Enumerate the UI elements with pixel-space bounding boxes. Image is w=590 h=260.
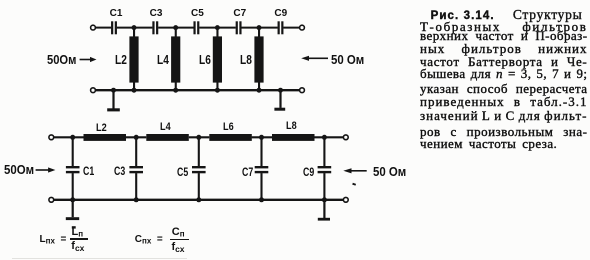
- label L6 (top filter): [199, 52, 211, 67]
- arrow: 50 Ohm load, bottom-right: [343, 168, 366, 173]
- terminal: bottom circuit output upper: [343, 135, 348, 140]
- inductor L4 (series, bottom filter): [146, 134, 189, 141]
- label C5: [191, 8, 204, 19]
- wire: bottom LP filter bottom rail: [54, 199, 344, 201]
- junction dots bottom rail of LP filter: [70, 197, 327, 202]
- terminal: bottom circuit output lower: [343, 197, 348, 202]
- label L2 (bottom filter): [96, 122, 107, 134]
- caption text block: [420, 7, 583, 23]
- formula C_px = C_p / f_cx: [135, 234, 163, 246]
- label L8 (top filter): [240, 52, 252, 67]
- label 50 Ohm top-left: [47, 52, 76, 67]
- junction dots top rail of HP filter: [132, 25, 262, 30]
- terminal: top circuit input lower: [91, 88, 96, 93]
- inductor L2 (series, bottom filter): [84, 134, 127, 141]
- label C3: [150, 8, 163, 19]
- wire: shunt branch C9: [323, 137, 325, 200]
- label L6 (bottom filter): [223, 121, 234, 133]
- label L2 (top filter): [115, 52, 127, 67]
- label C3 (bottom filter): [114, 164, 125, 178]
- faint scan streak bottom: [12, 258, 187, 259]
- label C1: [110, 8, 123, 19]
- inductor L6 (series, bottom filter): [209, 134, 252, 141]
- terminal: bottom circuit input lower: [49, 197, 54, 202]
- terminal: bottom circuit input upper: [49, 135, 54, 140]
- label C9: [274, 8, 287, 19]
- wire: top HP filter top rail segments: [96, 27, 300, 29]
- ground (top filter, right): [274, 90, 285, 111]
- wire: shunt branch C5: [198, 137, 200, 200]
- label 50 Ohm bottom-left: [4, 162, 34, 177]
- terminal: top circuit output lower: [300, 88, 305, 93]
- arrow: 50 Ohm source, top-left: [80, 57, 97, 62]
- inductor L6 (shunt, top filter): [213, 28, 222, 90]
- label L4 (top filter): [157, 52, 169, 67]
- label C7: [233, 8, 246, 19]
- capacitor C7 plates (shunt, bottom filter): [255, 166, 269, 173]
- label 50 Ohm bottom-right: [373, 164, 406, 179]
- ground (top filter, left): [107, 90, 120, 111]
- junction dots top rail of LP filter: [70, 135, 327, 140]
- inductor L4 (shunt, top filter): [171, 28, 180, 90]
- ground (bottom filter, right): [318, 200, 330, 221]
- capacitor C1 (series, top filter): [111, 21, 117, 34]
- terminal: top circuit output upper: [300, 25, 305, 30]
- label L8 (bottom filter): [286, 120, 297, 132]
- label C7 (bottom filter): [242, 165, 253, 179]
- capacitor C3 (series, top filter): [152, 21, 158, 34]
- label 50 Ohm top-right: [331, 52, 364, 67]
- inductor L8 (series, bottom filter): [272, 134, 315, 141]
- stray mark (scan speck): [352, 183, 356, 186]
- wire: shunt branch C7: [260, 137, 262, 200]
- label L4 (bottom filter): [160, 121, 171, 133]
- arrow: 50 Ohm load, top-right: [301, 56, 328, 61]
- wire: shunt branch C1: [72, 137, 74, 200]
- ground (bottom filter, left): [66, 200, 79, 229]
- terminal: top circuit input upper: [91, 25, 96, 30]
- label C5 (bottom filter): [177, 165, 188, 179]
- capacitor C5 (series, top filter): [193, 21, 199, 34]
- capacitor C5 plates (shunt, bottom filter): [192, 166, 206, 173]
- formula L_px = L_p / f_cx: [40, 234, 67, 246]
- capacitor C7 (series, top filter): [236, 21, 242, 34]
- capacitor C9 plates (shunt, bottom filter): [318, 166, 332, 173]
- inductor L2 (shunt, top filter): [129, 28, 138, 90]
- inductor L8 (shunt, top filter): [254, 28, 263, 90]
- capacitor C1 plates (shunt, bottom filter): [66, 166, 80, 173]
- capacitor C9 (series, top filter): [278, 21, 284, 34]
- junction dots bottom rail of HP filter: [111, 88, 283, 93]
- wire: top HP filter bottom rail: [96, 89, 300, 91]
- wire: shunt branch C3: [135, 137, 137, 200]
- capacitor C3 plates (shunt, bottom filter): [129, 166, 143, 173]
- wire: bottom LP filter top rail segments: [54, 136, 344, 138]
- arrow: 50 Ohm source, bottom-left: [36, 167, 56, 172]
- label C9 (bottom filter): [303, 165, 314, 179]
- label C1 (bottom filter): [83, 164, 94, 178]
